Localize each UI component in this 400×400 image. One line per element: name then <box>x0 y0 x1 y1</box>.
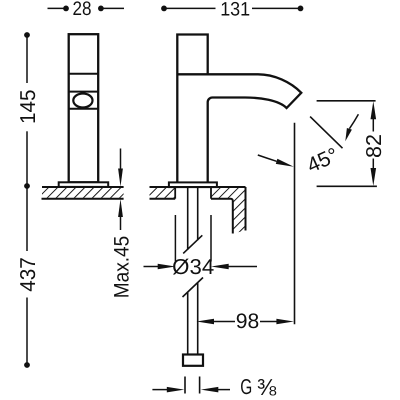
countertop right block front view hatch <box>211 188 246 234</box>
svg-text:131: 131 <box>220 0 250 21</box>
body joint line side view <box>69 73 99 75</box>
dimension 145 line lower <box>26 131 28 186</box>
diameter 34 extension line right <box>210 215 212 262</box>
countertop slab side view hatch <box>42 188 124 198</box>
svg-text:G: G <box>240 375 252 399</box>
break slash lower <box>183 278 204 298</box>
countertop slab side view bottom edge <box>42 198 124 200</box>
diameter 34 arrow right <box>211 264 229 270</box>
base plate side view <box>59 182 108 187</box>
45 degree reference line <box>310 117 342 149</box>
svg-text:⅜: ⅜ <box>257 374 277 400</box>
countertop front view bottom edge left <box>150 198 176 200</box>
dimension 28 dot left <box>63 5 69 11</box>
base plate front view <box>169 182 217 187</box>
svg-text:Max.45: Max.45 <box>110 236 133 299</box>
dimension 437 dot bottom <box>24 362 30 368</box>
countertop slab side view top edge <box>42 186 124 188</box>
Max.45 arrow up <box>118 199 123 217</box>
dimension 82 arrow down <box>372 159 374 169</box>
G3/8 arrow right <box>201 387 219 393</box>
G3/8 extension line left <box>184 377 186 394</box>
svg-text:Ø34: Ø34 <box>172 255 214 279</box>
handle band lower line side view <box>69 108 99 110</box>
dimension 82 extension line bottom <box>317 185 377 187</box>
45 degree curved leader arrow <box>349 114 358 129</box>
break slash upper <box>183 235 202 253</box>
handle band upper line side view <box>69 91 99 93</box>
dimension 82 extension line top <box>317 100 376 102</box>
G3/8 arrow left <box>152 389 168 391</box>
dimension 28 dot right <box>98 5 104 11</box>
dimension 131 dot left <box>161 5 167 11</box>
supply shank lower right line <box>197 283 199 355</box>
handle knob ellipse side view <box>73 94 92 108</box>
svg-text:28: 28 <box>73 0 92 20</box>
svg-text:145: 145 <box>16 90 40 125</box>
leader arrow to water line <box>258 155 277 161</box>
countertop front view bottom edge right <box>211 199 233 234</box>
water stream line <box>294 123 296 324</box>
svg-text:82: 82 <box>362 134 386 158</box>
countertop left block front view hatch <box>150 188 176 198</box>
dimension 28 line right <box>101 7 124 9</box>
dimension 98 arrow right <box>260 321 277 323</box>
countertop front view top edge <box>150 186 246 188</box>
dimension 437 line lower <box>26 298 28 366</box>
supply shank upper right line <box>197 187 199 240</box>
tap body side view <box>69 34 99 182</box>
dimension 28 line left <box>48 7 67 9</box>
svg-text:437: 437 <box>16 257 40 292</box>
diameter 34 extension line left <box>174 215 176 262</box>
tap body front view outline <box>177 35 301 183</box>
supply shank lower left line <box>187 293 189 355</box>
svg-text:98: 98 <box>236 310 260 333</box>
dimension 131 dot right <box>298 5 304 11</box>
countertop front view hole edge left <box>174 187 176 199</box>
dimension 131 line left <box>164 7 216 9</box>
dimension 98 arrow left <box>197 319 215 325</box>
dimension 437 line upper <box>26 186 28 251</box>
dimension 82 arrow up <box>371 101 377 119</box>
diameter 34 arrow left <box>144 266 160 268</box>
dimension 437 dot middle <box>24 183 30 189</box>
connection nut <box>183 355 203 366</box>
dimension 131 line right <box>252 7 301 9</box>
dimension 145 dot top <box>24 32 30 38</box>
dimension 145 line upper <box>26 35 28 83</box>
G3/8 extension line right <box>199 377 201 394</box>
Max.45 arrow down <box>120 149 122 173</box>
countertop front view outer right edge <box>245 187 247 231</box>
supply shank upper left line <box>187 187 189 250</box>
countertop front view hole edge right <box>210 187 212 199</box>
